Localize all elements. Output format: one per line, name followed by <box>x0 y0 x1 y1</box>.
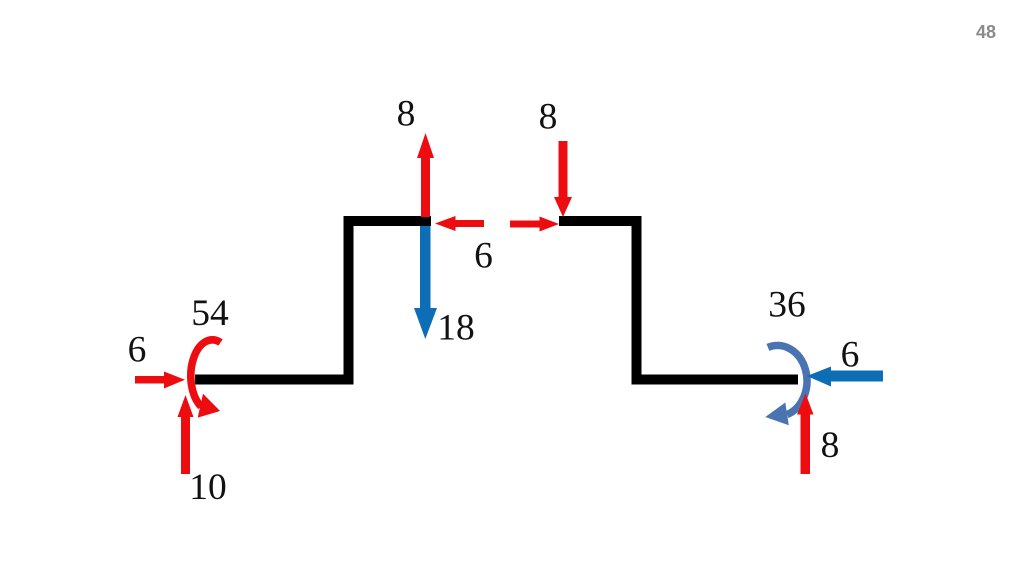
svg-text:18: 18 <box>437 308 475 349</box>
svg-text:10: 10 <box>189 467 227 508</box>
svg-text:6: 6 <box>841 335 860 376</box>
svg-text:8: 8 <box>397 94 416 135</box>
svg-text:54: 54 <box>191 293 229 334</box>
svg-text:6: 6 <box>474 236 493 277</box>
svg-text:8: 8 <box>821 425 840 466</box>
svg-text:8: 8 <box>539 97 558 138</box>
svg-text:6: 6 <box>128 330 147 371</box>
svg-text:36: 36 <box>768 285 806 326</box>
svg-text:48: 48 <box>976 22 996 42</box>
